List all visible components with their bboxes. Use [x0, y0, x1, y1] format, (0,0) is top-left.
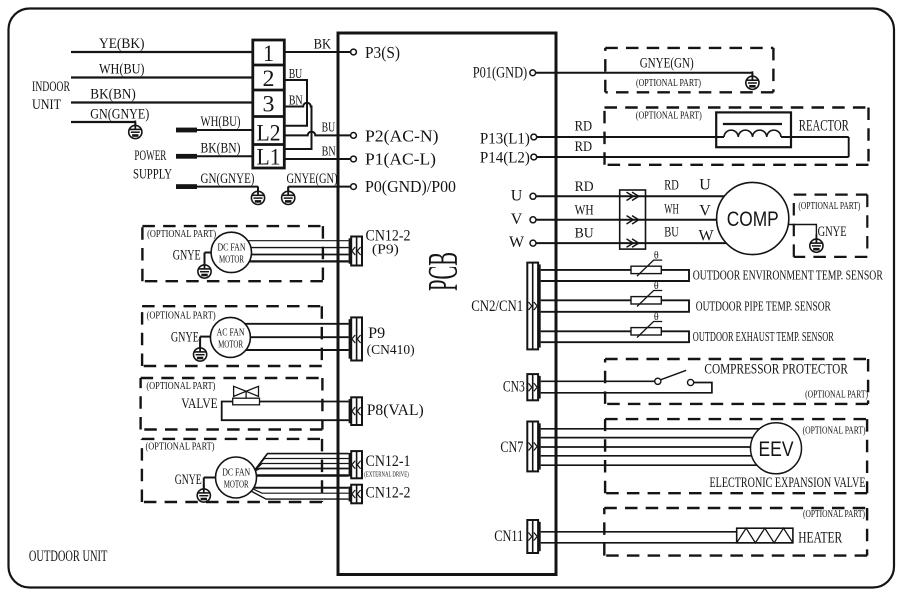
svg-text:CN11: CN11 — [494, 528, 523, 545]
svg-text:MOTOR: MOTOR — [224, 479, 249, 491]
svg-text:PCB: PCB — [421, 252, 467, 291]
svg-text:1: 1 — [263, 41, 274, 66]
svg-text:RD: RD — [664, 178, 679, 194]
svg-text:P1(AC-L): P1(AC-L) — [365, 150, 436, 169]
svg-text:GNYE: GNYE — [173, 248, 201, 264]
svg-text:P14(L2): P14(L2) — [480, 150, 530, 167]
svg-text:(OPTIONAL PART): (OPTIONAL PART) — [803, 426, 866, 437]
svg-text:MOTOR: MOTOR — [218, 339, 243, 351]
svg-text:GNYE: GNYE — [818, 224, 847, 240]
svg-text:OUTDOOR ENVIRONMENT TEMP. SENS: OUTDOOR ENVIRONMENT TEMP. SENSOR — [693, 268, 883, 283]
svg-text:P3(S): P3(S) — [365, 43, 400, 62]
svg-text:V: V — [699, 203, 711, 220]
svg-text:(P9): (P9) — [372, 243, 399, 258]
svg-text:CN12-1: CN12-1 — [366, 453, 411, 470]
svg-text:P0(GND)/P00: P0(GND)/P00 — [365, 177, 456, 196]
svg-text:U: U — [699, 177, 711, 194]
svg-text:3: 3 — [263, 92, 275, 117]
svg-text:V: V — [511, 211, 523, 228]
svg-text:COMP: COMP — [727, 208, 779, 231]
svg-text:POWER: POWER — [134, 148, 166, 164]
svg-text:REACTOR: REACTOR — [799, 118, 849, 135]
svg-text:θ: θ — [654, 312, 659, 323]
svg-text:BU: BU — [664, 225, 679, 241]
svg-text:P13(L1): P13(L1) — [480, 131, 530, 148]
svg-text:BK(BN): BK(BN) — [201, 141, 241, 157]
svg-text:(OPTIONAL PART): (OPTIONAL PART) — [805, 390, 868, 401]
svg-text:COMPRESSOR PROTECTOR: COMPRESSOR PROTECTOR — [704, 362, 848, 378]
svg-text:AC FAN: AC FAN — [217, 327, 245, 339]
svg-text:CN2/CN1: CN2/CN1 — [471, 298, 523, 315]
svg-text:RD: RD — [575, 139, 593, 155]
svg-text:WH: WH — [575, 202, 594, 218]
svg-text:VALVE: VALVE — [181, 396, 218, 412]
svg-text:θ: θ — [654, 281, 659, 292]
svg-text:BU: BU — [322, 121, 336, 136]
svg-text:BU: BU — [575, 226, 594, 242]
svg-text:OUTDOOR EXHAUST TEMP. SENSOR: OUTDOOR EXHAUST TEMP. SENSOR — [693, 329, 834, 344]
svg-text:P01(GND): P01(GND) — [473, 65, 528, 82]
svg-text:INDOOR: INDOOR — [32, 79, 70, 95]
svg-text:DC FAN: DC FAN — [222, 467, 250, 479]
svg-text:BU: BU — [289, 67, 303, 82]
svg-text:(OPTIONAL PART): (OPTIONAL PART) — [636, 78, 701, 89]
svg-text:YE(BK): YE(BK) — [99, 36, 145, 52]
svg-text:GN(GNYE): GN(GNYE) — [90, 107, 149, 123]
svg-text:L1: L1 — [257, 145, 281, 170]
svg-text:GNYE: GNYE — [175, 472, 202, 488]
svg-text:W: W — [699, 228, 715, 245]
svg-text:OUTDOOR UNIT: OUTDOOR UNIT — [29, 548, 108, 565]
svg-text:W: W — [509, 234, 525, 251]
svg-text:θ: θ — [654, 251, 659, 262]
svg-text:P9: P9 — [368, 325, 385, 342]
svg-text:GNYE(GN): GNYE(GN) — [287, 171, 338, 187]
svg-text:UNIT: UNIT — [32, 97, 61, 113]
svg-text:L2: L2 — [257, 121, 281, 146]
svg-text:RD: RD — [575, 119, 593, 135]
svg-text:CN3: CN3 — [503, 379, 525, 396]
svg-text:BN: BN — [289, 94, 303, 109]
svg-text:GNYE: GNYE — [171, 330, 199, 346]
svg-text:(EXTERNAL DRIVE): (EXTERNAL DRIVE) — [364, 470, 409, 479]
svg-text:WH(BU): WH(BU) — [99, 62, 145, 78]
svg-text:RD: RD — [575, 179, 594, 195]
svg-text:U: U — [511, 187, 523, 204]
svg-text:P8(VAL): P8(VAL) — [367, 402, 424, 419]
svg-text:BK(BN): BK(BN) — [90, 87, 136, 103]
svg-text:EEV: EEV — [759, 438, 794, 461]
svg-text:(OPTIONAL PART): (OPTIONAL PART) — [146, 381, 215, 392]
svg-text:GNYE(GN): GNYE(GN) — [640, 56, 694, 72]
svg-text:SUPPLY: SUPPLY — [133, 167, 172, 183]
svg-text:CN7: CN7 — [500, 439, 523, 456]
svg-text:MOTOR: MOTOR — [219, 254, 244, 266]
svg-text:(OPTIONAL PART): (OPTIONAL PART) — [803, 509, 865, 520]
svg-text:2: 2 — [263, 66, 275, 91]
svg-text:(CN410): (CN410) — [367, 343, 415, 358]
svg-text:WH: WH — [664, 201, 679, 217]
svg-text:DC FAN: DC FAN — [218, 242, 246, 254]
svg-text:(OPTIONAL PART): (OPTIONAL PART) — [636, 111, 702, 122]
svg-text:HEATER: HEATER — [798, 530, 842, 547]
svg-text:BN: BN — [322, 145, 336, 160]
svg-text:(OPTIONAL PART): (OPTIONAL PART) — [147, 229, 216, 240]
svg-text:BK: BK — [314, 37, 332, 53]
svg-text:P2(AC-N): P2(AC-N) — [365, 127, 439, 146]
svg-text:(OPTIONAL PART): (OPTIONAL PART) — [147, 311, 216, 322]
svg-text:WH(BU): WH(BU) — [201, 114, 241, 130]
svg-text:CN12-2: CN12-2 — [366, 485, 411, 502]
svg-text:(OPTIONAL PART): (OPTIONAL PART) — [798, 201, 860, 212]
svg-text:OUTDOOR PIPE TEMP. SENSOR: OUTDOOR PIPE TEMP. SENSOR — [696, 298, 831, 313]
svg-text:GN(GNYE): GN(GNYE) — [201, 171, 255, 187]
svg-text:(OPTIONAL PART): (OPTIONAL PART) — [146, 442, 215, 453]
svg-text:ELECTRONIC EXPANSION VALVE: ELECTRONIC EXPANSION VALVE — [710, 475, 866, 491]
